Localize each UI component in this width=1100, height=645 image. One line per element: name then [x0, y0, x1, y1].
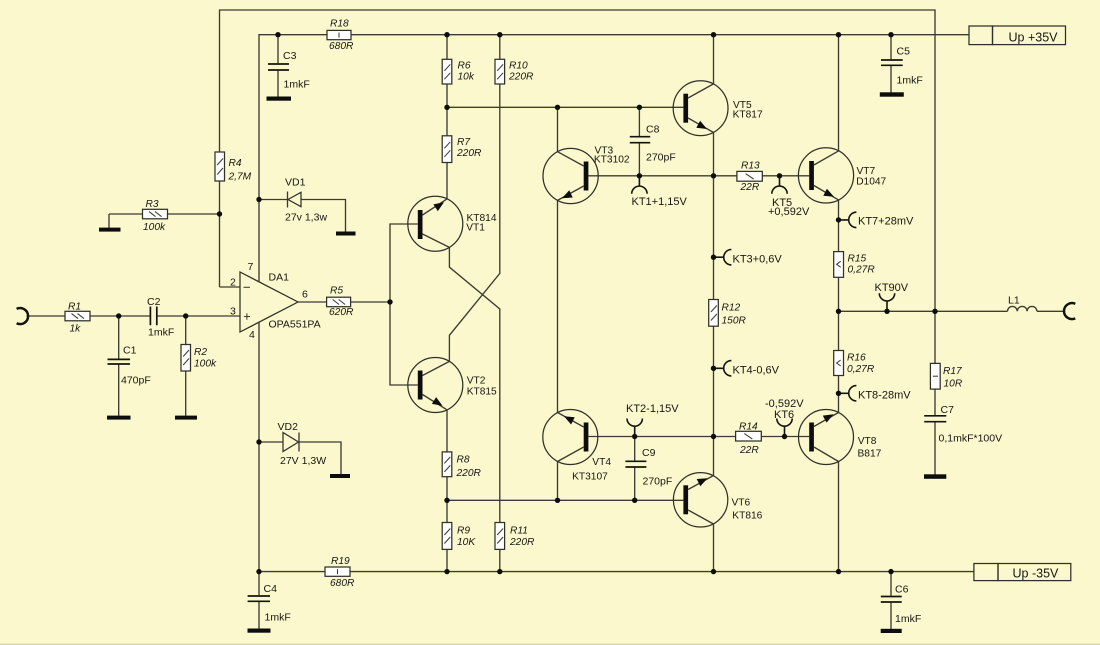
wire C4 stems [258, 572, 260, 629]
svg-text:R18: R18 [330, 19, 349, 30]
svg-text:C3: C3 [283, 50, 297, 62]
resistor R18 [327, 19, 354, 52]
svg-text:150R: 150R [722, 316, 747, 327]
node C1 [116, 313, 121, 318]
svg-text:27v 1,3w: 27v 1,3w [285, 212, 327, 224]
node R10 rail [497, 32, 502, 37]
transistor VT1 KT814 [408, 196, 497, 251]
resistor R17 [930, 363, 962, 389]
svg-text:R16: R16 [847, 353, 866, 364]
svg-text:KT3107: KT3107 [572, 472, 608, 483]
svg-text:R19: R19 [331, 556, 350, 567]
wire VT4 base line to VT8 base [588, 436, 809, 438]
svg-text:R15: R15 [848, 254, 867, 265]
svg-text:2,7M: 2,7M [228, 172, 252, 183]
connector Up -35V [974, 564, 1071, 581]
test point KT2 [626, 403, 679, 434]
svg-text:C7: C7 [941, 404, 955, 416]
svg-text:KT817: KT817 [733, 109, 763, 120]
svg-text:10k: 10k [458, 72, 475, 83]
svg-text:R8: R8 [457, 455, 470, 466]
node VT5 emitter [711, 173, 716, 178]
svg-text:R12: R12 [722, 303, 741, 314]
wire C6 stems [890, 572, 892, 629]
faint bottom edge artifact [0, 644, 1100, 645]
zener diode VD1 [285, 177, 327, 224]
node VD2 [256, 439, 261, 444]
svg-text:270pF: 270pF [646, 152, 676, 164]
svg-text:R3: R3 [146, 199, 159, 210]
node KT90V [884, 309, 889, 314]
svg-text:+0,592V: +0,592V [768, 206, 810, 218]
op-amp DA1 OPA551PA [230, 261, 321, 341]
svg-text:C6: C6 [895, 584, 909, 596]
wire R2 stems [185, 316, 187, 416]
wire -35V rail with op-amp pin4 vertical [259, 323, 974, 572]
svg-text:0,1mkF*100V: 0,1mkF*100V [939, 433, 1003, 445]
svg-text:R4: R4 [229, 158, 242, 169]
svg-text:10R: 10R [944, 379, 963, 390]
resistor R19 [325, 556, 355, 589]
resistor R8 [442, 452, 481, 479]
node KT6 VT8 base [782, 434, 787, 439]
svg-text:3: 3 [230, 306, 236, 318]
wire C1 stems [118, 316, 120, 416]
wire VT6 collector [713, 524, 715, 572]
svg-text:100k: 100k [143, 222, 166, 233]
svg-text:220R: 220R [456, 468, 482, 479]
transistor VT8 B817 [799, 410, 882, 465]
svg-text:220R: 220R [508, 72, 534, 83]
test point KT7 [841, 212, 914, 227]
svg-text:R17: R17 [943, 366, 962, 377]
resistor R4 [215, 152, 252, 183]
node R2 [183, 313, 188, 318]
wire VT3 emitter to VT4 emitter [557, 200, 559, 412]
svg-text:KT3102: KT3102 [594, 155, 630, 166]
wire +35V rail with op-amp pin7 vertical [259, 35, 969, 282]
resistor R5 [327, 286, 354, 319]
svg-text:KT816: KT816 [732, 511, 762, 522]
svg-text:KT7+28mV: KT7+28mV [858, 216, 914, 228]
ground R2 [175, 416, 197, 420]
node KT4 [711, 366, 716, 371]
node R15 R16 output [836, 309, 841, 314]
node VT5 collector rail [711, 32, 716, 37]
svg-text:7: 7 [248, 261, 254, 273]
resistor R3 [143, 199, 168, 233]
wire C5 stems [890, 35, 892, 93]
svg-text:220R: 220R [509, 537, 535, 548]
svg-text:R1: R1 [68, 302, 81, 313]
node R8 R9 [444, 498, 449, 503]
svg-text:VT2: VT2 [467, 375, 486, 386]
capacitor C9 [625, 447, 672, 488]
wire VT2 emitter to R8 [446, 410, 448, 501]
ground C6 [881, 629, 902, 633]
svg-text:KT4-0,6V: KT4-0,6V [733, 365, 780, 377]
resistor R12 [709, 300, 747, 327]
svg-text:R7: R7 [457, 137, 470, 148]
node R6 rail [444, 32, 449, 37]
wire feedback loop top: output node to R4 top and pin2 [220, 10, 936, 311]
svg-text:KT8-28mV: KT8-28mV [858, 390, 911, 402]
ground VD1 [336, 232, 356, 236]
wire VT1 VT2 base column [390, 224, 418, 385]
wire R7 stems and VT1 emitter [446, 107, 448, 199]
wire C8 stems [638, 107, 640, 176]
resistor R13 [737, 161, 762, 194]
svg-text:100k: 100k [194, 359, 217, 370]
connector Up +35V [969, 26, 1066, 45]
wire VD2 leads [259, 442, 341, 474]
ground R3 [99, 228, 121, 232]
wire R17 C7 stems [934, 311, 936, 474]
node VT8 collector rail [836, 569, 841, 574]
svg-text:VT6: VT6 [732, 498, 751, 509]
node VT3 collector [555, 105, 560, 110]
node KT2 C9 [632, 434, 637, 439]
svg-text:VT7: VT7 [857, 166, 876, 177]
svg-text:C2: C2 [147, 296, 161, 308]
wire VT7 collector [838, 35, 840, 151]
wire VD1 leads [259, 200, 346, 232]
svg-text:-0,592V: -0,592V [765, 398, 804, 410]
svg-text:C1: C1 [123, 345, 137, 357]
node C9 bottom [632, 498, 637, 503]
resistor R9 [442, 523, 476, 550]
node C8 top [637, 105, 642, 110]
capacitor C5 [881, 46, 923, 87]
wire VT3 collector vertical [557, 107, 559, 151]
wire VT6 emitter [713, 437, 715, 476]
node VT6 emitter [711, 434, 716, 439]
svg-text:0,27R: 0,27R [847, 364, 875, 375]
svg-text:VT8: VT8 [858, 436, 877, 447]
svg-text:22R: 22R [740, 182, 760, 193]
svg-text:R14: R14 [739, 422, 758, 433]
svg-text:KT1+1,15V: KT1+1,15V [632, 196, 688, 208]
resistor R16 [834, 351, 875, 376]
svg-text:D1047: D1047 [856, 177, 886, 188]
node R9 rail [444, 569, 449, 574]
capacitor C8 [630, 124, 676, 164]
svg-text:KT2-1,15V: KT2-1,15V [626, 403, 679, 415]
wire R6 stems [446, 35, 448, 108]
svg-text:470pF: 470pF [121, 375, 151, 387]
transistor VT3 KT3102 [543, 145, 630, 203]
wire C3 stems [277, 35, 279, 97]
svg-text:KT815: KT815 [467, 386, 497, 397]
svg-text:1mkF: 1mkF [897, 75, 923, 87]
input connector [17, 308, 28, 324]
resistor R14 [736, 422, 762, 457]
wire R11 bottom stem [499, 549, 501, 571]
svg-text:DA1: DA1 [269, 272, 290, 284]
capacitor C2 [147, 296, 174, 339]
svg-text:270pF: 270pF [643, 476, 673, 488]
svg-text:C4: C4 [264, 583, 278, 595]
test point KT5 [768, 178, 810, 218]
transistor VT2 KT815 [408, 358, 497, 413]
svg-text:C9: C9 [642, 447, 656, 459]
test point KT1 [632, 178, 688, 208]
ground C5 [880, 92, 904, 96]
node KT8 [836, 391, 841, 396]
node output R17 [932, 309, 937, 314]
node C5 rail [888, 32, 893, 37]
svg-text:KT6: KT6 [774, 409, 794, 421]
test point KT6 [765, 398, 804, 434]
wire VT3 base line to VT7 base [588, 175, 809, 177]
resistor R2 [181, 345, 217, 372]
ground C3 [267, 97, 292, 101]
svg-text:1mkF: 1mkF [148, 327, 174, 339]
resistor R1 [65, 302, 90, 335]
ground C7 [924, 474, 946, 479]
transistor VT7 D1047 [798, 148, 886, 203]
svg-text:1k: 1k [70, 324, 82, 335]
wire input line R1 C2 to pin3 [27, 315, 241, 317]
wire VT1 collector to R11 [449, 247, 499, 522]
ground C1 [107, 416, 131, 420]
svg-text:R2: R2 [194, 347, 207, 358]
resistor R7 [442, 136, 482, 163]
wire op-amp pin2 input [220, 286, 241, 288]
wire C9 stems [634, 437, 636, 501]
svg-text:R6: R6 [458, 61, 471, 72]
svg-text:C5: C5 [897, 46, 911, 58]
svg-text:VT4: VT4 [592, 457, 611, 468]
node VT6 collector rail [711, 569, 716, 574]
capacitor C4 [248, 583, 291, 624]
svg-text:B817: B817 [858, 448, 882, 459]
test point KT8 [841, 386, 911, 402]
node R5 out [387, 299, 392, 304]
transistor VT4 KT3107 [543, 410, 612, 483]
svg-text:KT3+0,6V: KT3+0,6V [733, 254, 783, 266]
test point KT90V [875, 282, 909, 309]
wire output line [839, 310, 1065, 312]
wire VT7 emitter R15 R16 column to VT8 emitter [838, 200, 840, 413]
resistor R11 [495, 523, 535, 550]
wire mid line R6 to VT5 base [447, 106, 683, 108]
transistor VT6 KT816 [673, 473, 762, 527]
wire R3 left and right [109, 214, 220, 228]
svg-text:OPA551PA: OPA551PA [269, 319, 321, 331]
svg-text:0,27R: 0,27R [848, 265, 876, 276]
svg-text:1mkF: 1mkF [265, 612, 291, 624]
svg-text:R13: R13 [741, 161, 760, 172]
node VT4 collector [555, 498, 560, 503]
test point KT4 [716, 361, 780, 377]
node R6 R7 [444, 105, 449, 110]
wire VT5 collector [713, 35, 715, 84]
wire lower mid line to VT6 base [447, 499, 683, 501]
svg-text:Up +35V: Up +35V [1009, 31, 1059, 45]
svg-text:R5: R5 [330, 286, 343, 297]
svg-text:1mkF: 1mkF [895, 613, 921, 625]
svg-text:680R: 680R [330, 578, 355, 589]
svg-text:R9: R9 [457, 526, 470, 537]
output connector [1064, 303, 1075, 319]
transistor VT5 KT817 [673, 81, 763, 136]
svg-text:R11: R11 [510, 526, 528, 537]
capacitor C7 [924, 404, 1002, 445]
svg-text:KT90V: KT90V [875, 282, 909, 294]
node KT3 [711, 255, 716, 260]
zener diode VD2 [278, 421, 327, 467]
svg-text:VD2: VD2 [278, 421, 299, 433]
svg-text:L1: L1 [1008, 295, 1020, 307]
wire R9 stems [446, 500, 448, 571]
svg-text:27V 1,3W: 27V 1,3W [280, 455, 326, 467]
node KT5 VT7 base [777, 173, 782, 178]
svg-text:4: 4 [249, 329, 255, 341]
wire VT4 collector vertical [557, 462, 559, 501]
svg-text:680R: 680R [329, 41, 354, 52]
node C6 rail [888, 569, 893, 574]
svg-text:10K: 10K [457, 537, 476, 548]
wire R5 output [298, 301, 390, 303]
capacitor C1 [108, 345, 151, 387]
wire R10 stems to VT2 collector [449, 35, 499, 362]
resistor R6 [442, 59, 475, 84]
svg-text:2: 2 [230, 277, 236, 289]
node C3 rail [275, 32, 280, 37]
node C4 pin4 [256, 569, 261, 574]
svg-text:C8: C8 [646, 124, 660, 136]
svg-text:VD1: VD1 [285, 177, 306, 189]
resistor R10 [495, 59, 534, 84]
svg-text:22R: 22R [739, 445, 759, 456]
node KT1 VT3 base [637, 173, 642, 178]
wire VT5 emitter and R12 column [713, 133, 715, 437]
svg-text:VT1: VT1 [466, 222, 485, 233]
node op-amp feedback R3 R4 [217, 211, 222, 216]
ground VD2 [330, 474, 350, 478]
test point KT3 [716, 250, 782, 266]
svg-text:220R: 220R [456, 148, 482, 159]
svg-text:620R: 620R [329, 307, 354, 318]
ground C4 [248, 629, 271, 633]
node VD1 [256, 197, 261, 202]
node KT7 [836, 217, 841, 222]
svg-text:1mkF: 1mkF [284, 79, 310, 91]
wire VT8 collector [838, 462, 840, 572]
svg-text:R10: R10 [509, 61, 528, 72]
resistor R15 [834, 252, 876, 278]
inductor L1 [1008, 295, 1037, 312]
svg-text:6: 6 [302, 289, 308, 301]
svg-text:Up -35V: Up -35V [1013, 567, 1060, 581]
node R11 rail [497, 569, 502, 574]
node VT7 collector rail [836, 32, 841, 37]
capacitor C3 [268, 50, 310, 91]
capacitor C6 [881, 584, 921, 626]
